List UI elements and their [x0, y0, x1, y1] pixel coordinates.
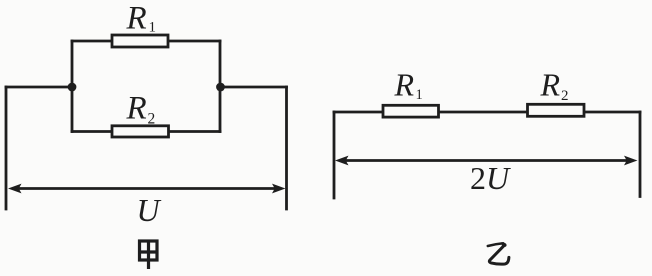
resistor R2 (circuit 甲) [112, 126, 169, 137]
svg-text:R: R [540, 67, 561, 103]
svg-text:R: R [126, 1, 147, 37]
caption 甲 (drawn glyph) [140, 241, 158, 269]
caption 乙 (drawn glyph) [488, 242, 509, 264]
junction dot (right node, circuit 甲) [216, 83, 225, 92]
svg-text:U: U [137, 192, 162, 228]
junction dot (left node, circuit 甲) [68, 83, 77, 92]
svg-text:R: R [394, 67, 415, 103]
wire: circuit 甲 left outer vertical [5, 87, 8, 209]
resistor R1 (circuit 甲) [112, 35, 168, 47]
wire: circuit 甲 top branch horizontal [72, 40, 220, 43]
wire: circuit 甲 left inner vertical [71, 41, 74, 132]
resistor R1 (circuit 乙) [383, 105, 439, 117]
voltage arrow U (circuit 甲) [8, 184, 286, 194]
svg-text:R: R [126, 91, 147, 127]
svg-text:1: 1 [416, 87, 423, 103]
wire: circuit 乙 top horizontal [334, 111, 640, 114]
wire: circuit 甲 bottom branch horizontal [72, 130, 220, 133]
wire: circuit 甲 right inner vertical [219, 41, 222, 132]
wire: circuit 甲 right outer vertical [285, 87, 288, 209]
wire: circuit 甲 left stub to junction [6, 86, 72, 89]
svg-text:2: 2 [148, 111, 156, 128]
wire: circuit 甲 right stub from junction [220, 86, 287, 89]
svg-text:1: 1 [149, 20, 157, 36]
wire: circuit 乙 left vertical [333, 112, 336, 198]
wire: circuit 乙 right vertical [639, 112, 642, 197]
voltage arrow 2U (circuit 乙) [335, 156, 638, 166]
resistor R2 (circuit 乙) [528, 104, 585, 116]
svg-text:2: 2 [561, 88, 569, 104]
svg-text:2U: 2U [470, 160, 511, 196]
